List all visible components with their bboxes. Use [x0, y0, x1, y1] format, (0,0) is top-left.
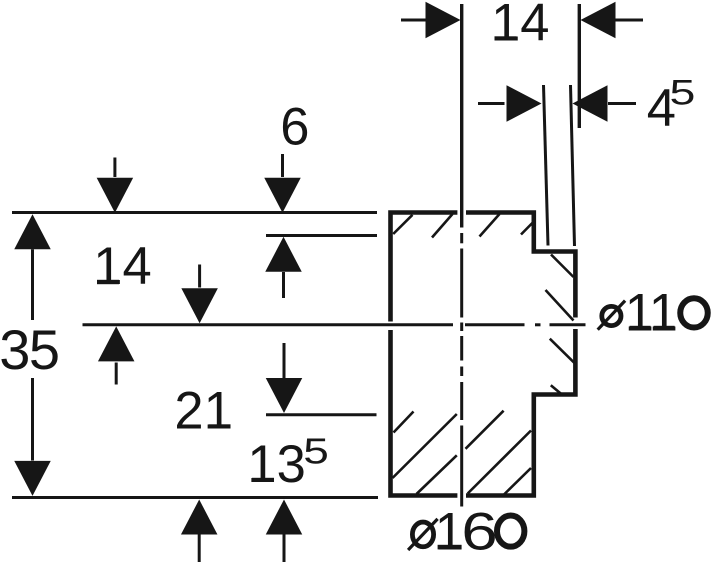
- svg-text:5: 5: [670, 73, 696, 112]
- svg-text:1: 1: [649, 283, 678, 342]
- svg-text:13: 13: [247, 435, 305, 494]
- svg-text:6: 6: [461, 502, 497, 561]
- svg-text:35: 35: [0, 318, 58, 381]
- svg-text:14: 14: [93, 237, 151, 296]
- svg-text:6: 6: [280, 98, 309, 157]
- svg-text:21: 21: [174, 382, 232, 441]
- svg-text:5: 5: [303, 431, 329, 471]
- svg-text:14: 14: [491, 0, 549, 53]
- svg-text:1: 1: [435, 502, 464, 561]
